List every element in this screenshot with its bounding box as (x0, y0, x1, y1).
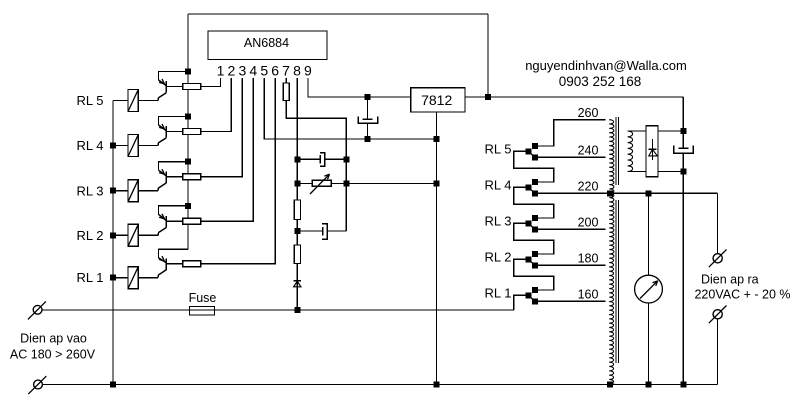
wire pin9 (308, 78, 411, 97)
wire 7812 output (465, 96, 683, 98)
node (680, 382, 686, 388)
capacitor C1 (358, 97, 378, 139)
node (646, 382, 652, 388)
wire (113, 145, 128, 147)
wire (648, 193, 650, 275)
resistor R3 (183, 174, 201, 180)
node emitter rail junction RL2 (185, 203, 191, 209)
wire (201, 78, 221, 87)
wire (166, 86, 182, 88)
relay contact RL1 blade (529, 296, 534, 301)
wire (297, 230, 323, 232)
terminal J1 (28, 301, 46, 319)
svg-text:AN6884: AN6884 (244, 36, 289, 50)
wire tap (538, 192, 606, 194)
wire (717, 193, 719, 253)
svg-text:200: 200 (578, 216, 599, 230)
capacitor C2 (320, 153, 325, 167)
wire (538, 289, 554, 291)
resistor R1 (183, 261, 201, 267)
relay coil RL5 (128, 90, 138, 112)
transformer T1 secondary winding (628, 131, 633, 172)
wire (297, 158, 320, 160)
wire (201, 78, 243, 177)
wire (138, 190, 158, 192)
svg-text:RL 3: RL 3 (77, 183, 104, 198)
wire (201, 78, 232, 132)
wire contact chain (514, 151, 554, 182)
node (485, 94, 491, 100)
node (607, 382, 613, 388)
transistor Q4 emitter (159, 124, 167, 131)
node contact common (526, 256, 532, 262)
op-amp U1 AN6884 body (208, 31, 327, 60)
capacitor C4 (674, 146, 694, 172)
svg-text:RL 5: RL 5 (77, 93, 104, 108)
node contact lower (532, 262, 538, 268)
wire (325, 158, 347, 160)
node contact upper (532, 179, 538, 185)
wire neutral bottom (42, 384, 717, 386)
label RL 2 (77, 228, 104, 243)
terminal J3 (709, 250, 727, 268)
wire tap (538, 300, 606, 302)
wire (159, 117, 189, 126)
transformer T1 primary winding (609, 120, 614, 385)
svg-text:7: 7 (282, 62, 290, 78)
svg-text:8: 8 (293, 62, 301, 78)
relay coil RL3 (128, 180, 138, 202)
node 220 tap (607, 190, 613, 196)
svg-text:0903 252 168: 0903 252 168 (559, 74, 642, 89)
wire 220 output line (606, 192, 718, 194)
voltmeter M1 (635, 275, 663, 303)
svg-text:RL 4: RL 4 (77, 138, 104, 153)
node contact common (526, 184, 532, 190)
resistor R4 (183, 129, 201, 135)
wire (138, 234, 158, 236)
wire (658, 130, 683, 132)
node (110, 275, 116, 281)
node (343, 181, 349, 187)
relay contact RL2 blade (529, 260, 534, 265)
resistor R8 (294, 245, 300, 264)
node contact common (526, 292, 532, 298)
label RL 5 (77, 93, 104, 108)
wire dc rail (682, 97, 684, 148)
svg-text:6: 6 (271, 62, 279, 78)
svg-text:1: 1 (217, 62, 225, 78)
wire +V top rail (188, 14, 488, 97)
wire (113, 234, 128, 236)
label email (525, 58, 687, 73)
node contact common (526, 148, 532, 154)
trimmer VR1 (310, 174, 331, 194)
wire (201, 78, 254, 221)
transistor Q2 emitter (159, 214, 167, 221)
wire pin8 rail (296, 78, 298, 310)
terminal J4 (709, 306, 727, 324)
svg-text:7812: 7812 (421, 92, 452, 108)
rectifier D2 body (646, 126, 658, 177)
label RL 3 (77, 183, 104, 198)
wire contact chain (514, 259, 554, 290)
label 240 (578, 144, 599, 158)
svg-text:RL 3: RL 3 (485, 213, 512, 228)
label Dien ap vao (20, 331, 87, 345)
node (365, 94, 371, 100)
node contact lower (532, 190, 538, 196)
node (294, 156, 300, 162)
wire (166, 220, 182, 222)
wire relay coil common rail (112, 101, 114, 385)
wire live riser (514, 295, 526, 310)
transistor Q5 base bar (165, 81, 167, 93)
svg-text:RL 1: RL 1 (485, 285, 512, 300)
transistor Q4 collector (158, 138, 166, 146)
wire (327, 230, 346, 232)
label AC 180 > 260V (10, 347, 96, 361)
node (110, 188, 116, 194)
svg-text:RL 2: RL 2 (77, 228, 104, 243)
wire (159, 206, 189, 215)
relay coil RL4 (128, 135, 138, 157)
wire (113, 277, 128, 279)
svg-text:3: 3 (238, 62, 246, 78)
transistor Q3 base bar (165, 171, 167, 183)
node (365, 136, 371, 142)
wire (628, 171, 646, 173)
node emitter rail junction RL3 (185, 159, 191, 165)
wire (159, 249, 189, 258)
wire (159, 72, 189, 81)
svg-text:RL 4: RL 4 (485, 177, 512, 192)
label 260 (578, 106, 599, 120)
relay contact RL5 blade (529, 152, 534, 157)
node (294, 228, 300, 234)
wire (538, 181, 554, 183)
transistor Q1 emitter (159, 256, 167, 263)
resistor R2 (183, 218, 201, 224)
label RL 5 contact (485, 141, 512, 156)
wire (682, 172, 684, 385)
svg-text:Dien ap vao: Dien ap vao (20, 331, 87, 345)
wire emitter supply rail (187, 72, 189, 250)
node (680, 128, 686, 134)
label RL 1 (77, 270, 104, 285)
label 200 (578, 216, 599, 230)
svg-text:220: 220 (578, 180, 599, 194)
relay contact RL4 blade (529, 188, 534, 193)
node emitter rail junction RL5 (185, 69, 191, 75)
wire (538, 217, 554, 219)
wire (648, 303, 650, 385)
wire (628, 130, 646, 132)
svg-text:Fuse: Fuse (189, 291, 217, 305)
wire ground rail (436, 112, 438, 385)
wire (166, 131, 182, 133)
svg-text:240: 240 (578, 144, 599, 158)
node contact lower (532, 226, 538, 232)
node (110, 143, 116, 149)
capacitor C3 (322, 224, 327, 239)
node contact upper (532, 287, 538, 293)
wire (717, 319, 719, 385)
wire pin7 (285, 78, 287, 83)
label RL 1 contact (485, 285, 512, 300)
node contact common (526, 220, 532, 226)
svg-text:180: 180 (578, 252, 599, 266)
node emitter rail junction RL4 (185, 114, 191, 120)
svg-text:nguyendinhvan@Walla.com: nguyendinhvan@Walla.com (525, 58, 687, 73)
label Dien ap ra (701, 273, 759, 287)
label RL 4 (77, 138, 104, 153)
wire (138, 145, 158, 147)
wire to 260 tap (538, 120, 606, 146)
node (110, 382, 116, 388)
svg-text:220VAC + - 20 %: 220VAC + - 20 % (694, 288, 790, 302)
transistor Q2 collector (158, 228, 166, 236)
wire (201, 78, 276, 264)
svg-text:RL 5: RL 5 (485, 141, 512, 156)
rectifier D2 diode (648, 139, 657, 160)
terminal J2 (28, 376, 46, 394)
wire (113, 190, 128, 192)
fuse F1 (189, 291, 217, 315)
label RL 2 contact (485, 249, 512, 264)
svg-text:2: 2 (228, 62, 236, 78)
transistor Q5 collector (158, 93, 166, 101)
node contact lower (532, 298, 538, 304)
label 220VAC (694, 288, 790, 302)
transistor Q1 base bar (165, 258, 167, 270)
wire tap (538, 264, 606, 266)
relay coil RL2 (128, 224, 138, 246)
pin numbers 1-9 (217, 62, 312, 78)
wire (166, 263, 182, 265)
regulator U2 7812 (411, 88, 465, 112)
node (680, 169, 686, 175)
resistor R6 on pin7 (283, 83, 289, 101)
label RL 4 contact (485, 177, 512, 192)
label 180 (578, 252, 599, 266)
node (646, 190, 652, 196)
node (294, 181, 300, 187)
wire tap (538, 156, 606, 158)
wire (297, 183, 312, 185)
wire ground link (346, 183, 436, 185)
label phone (559, 74, 642, 89)
wire (113, 100, 128, 102)
wire (159, 162, 189, 171)
svg-text:9: 9 (304, 62, 312, 78)
label RL 3 contact (485, 213, 512, 228)
svg-text:RL 1: RL 1 (77, 270, 104, 285)
wire pin5 ground (264, 78, 436, 139)
wire (331, 183, 346, 185)
svg-text:RL 2: RL 2 (485, 249, 512, 264)
transistor Q3 collector (158, 183, 166, 191)
wire (658, 171, 683, 173)
node (343, 156, 349, 162)
svg-text:Dien ap ra: Dien ap ra (701, 273, 759, 287)
node (434, 382, 440, 388)
node (434, 181, 440, 187)
wire (538, 253, 554, 255)
transistor Q4 base bar (165, 126, 167, 138)
node contact lower (532, 154, 538, 160)
transformer T1 core (616, 117, 619, 363)
label 160 (578, 288, 599, 302)
node contact upper (532, 215, 538, 221)
node contact upper (532, 251, 538, 257)
wire contact chain (514, 187, 554, 218)
node (294, 307, 300, 313)
svg-text:4: 4 (249, 62, 257, 78)
wire tap (538, 228, 606, 230)
label 220 (578, 180, 599, 194)
svg-text:160: 160 (578, 288, 599, 302)
svg-text:260: 260 (578, 106, 599, 120)
wire (138, 277, 158, 279)
transistor Q1 collector (158, 270, 166, 278)
relay contact RL3 blade (529, 224, 534, 229)
node (434, 136, 440, 142)
wire live input (42, 309, 514, 311)
relay coil RL1 (128, 267, 138, 289)
node (110, 232, 116, 238)
transistor Q2 base bar (165, 216, 167, 228)
resistor R5 (183, 84, 201, 90)
wire (138, 100, 158, 102)
svg-text:5: 5 (260, 62, 268, 78)
resistor R7 (294, 200, 300, 220)
transistor Q3 emitter (159, 169, 167, 176)
svg-text:AC 180 > 260V: AC 180 > 260V (10, 347, 96, 361)
node contact upper (532, 143, 538, 149)
transistor Q5 emitter (159, 79, 167, 86)
diode D1 (294, 281, 302, 287)
wire pin7 to divider (286, 101, 346, 232)
wire contact chain (514, 223, 554, 254)
wire (166, 176, 182, 178)
